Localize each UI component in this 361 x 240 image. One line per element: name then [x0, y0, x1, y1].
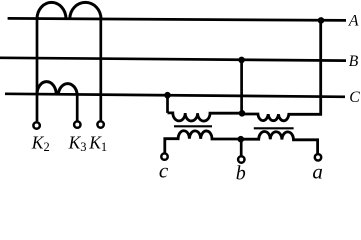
svg-text:B: B — [349, 53, 359, 70]
svg-text:c: c — [159, 159, 169, 183]
svg-text:A: A — [348, 13, 359, 30]
svg-text:b: b — [236, 163, 246, 185]
svg-text:K3: K3 — [68, 132, 87, 154]
svg-text:C: C — [349, 89, 360, 106]
svg-text:K1: K1 — [88, 132, 107, 154]
svg-text:a: a — [312, 160, 323, 184]
svg-text:K2: K2 — [31, 132, 50, 154]
